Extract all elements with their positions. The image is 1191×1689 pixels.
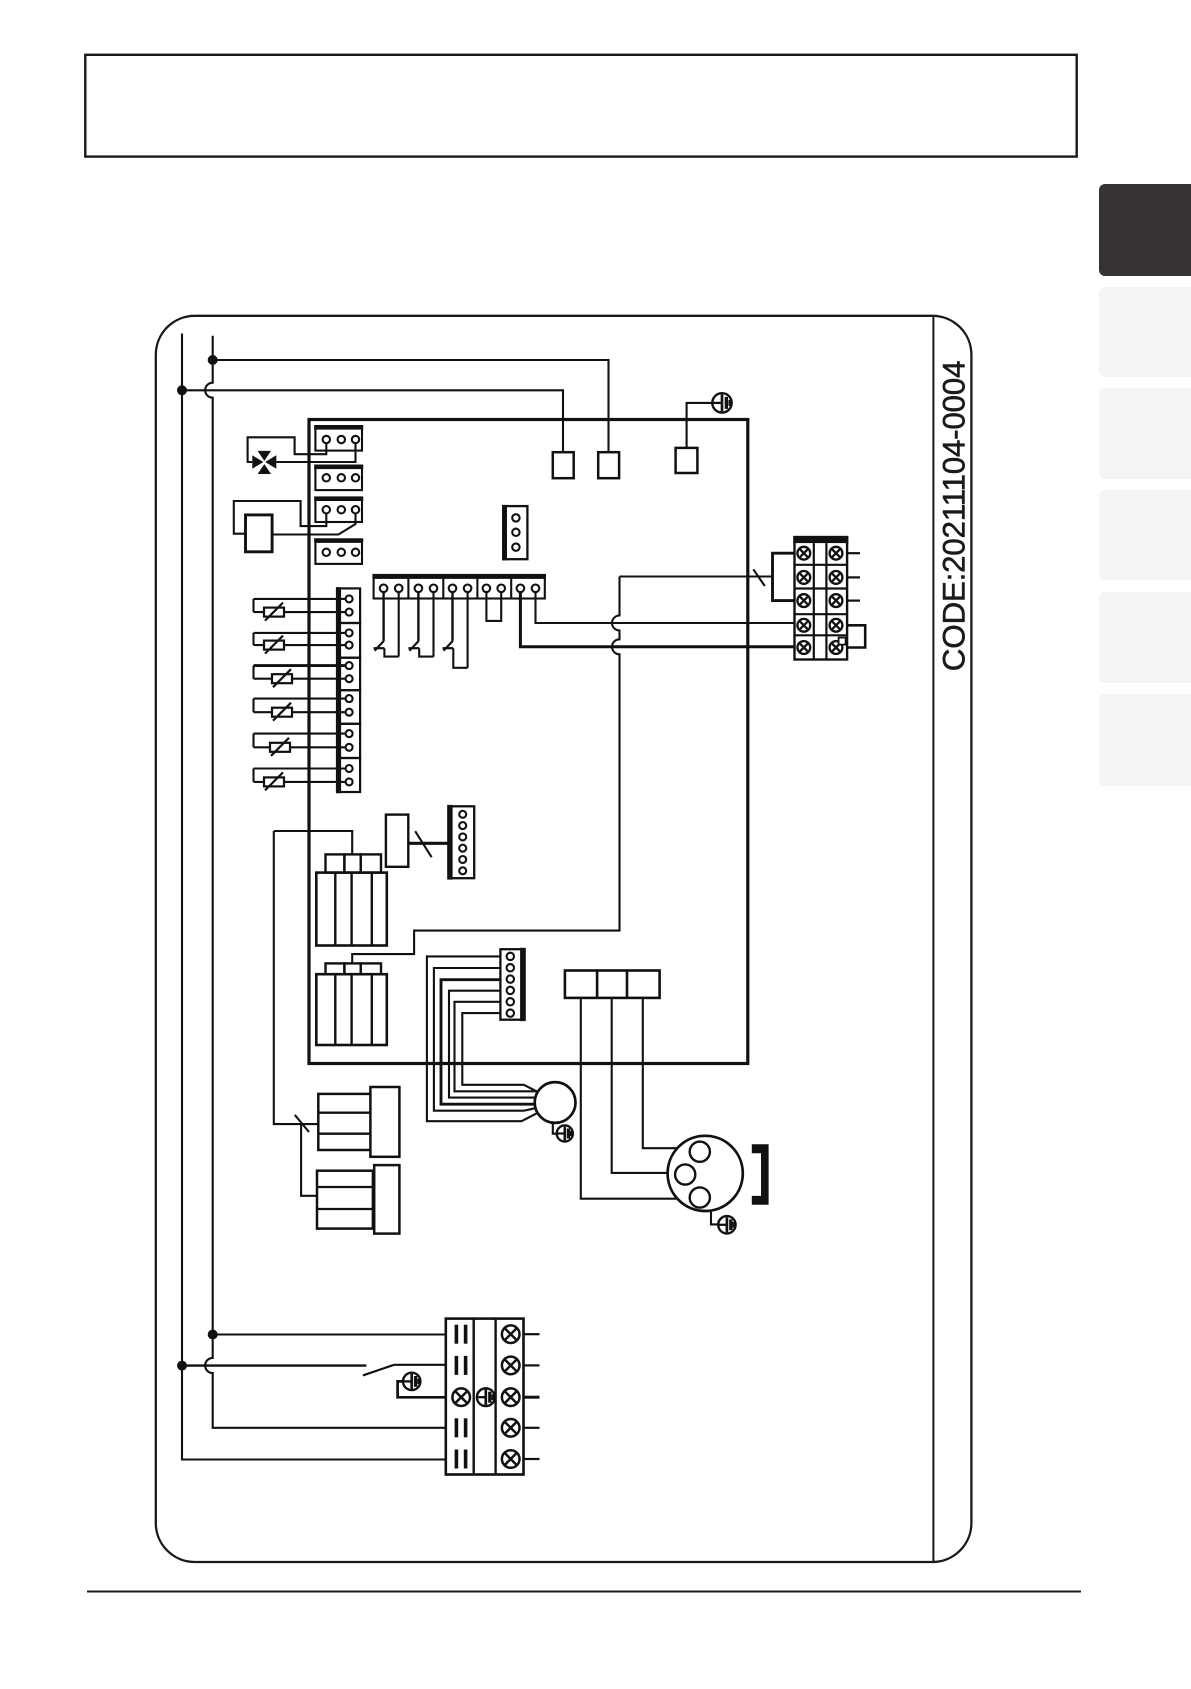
earth screw E2 (557, 1125, 573, 1141)
thermistor RT4 (254, 699, 346, 721)
thermistor RT5 (254, 734, 346, 756)
wire CN8 pin2 to motor (434, 968, 537, 1111)
junction dot L1 bottom (177, 1361, 187, 1371)
fan motor M1 (535, 1082, 576, 1123)
connector CN4 (314, 538, 363, 564)
heater H1 (318, 1087, 399, 1157)
side tab 2 (1099, 287, 1191, 377)
TB3 screw row4 (502, 1419, 520, 1437)
wire L1 to box S1 (182, 390, 563, 452)
switch slash TB2 (753, 569, 765, 586)
wire M1 to earth screw E2 (553, 1123, 557, 1134)
switch SW2 (408, 592, 433, 657)
side tab 5 (1099, 592, 1191, 683)
TB3 screw row5 (502, 1450, 520, 1468)
wire feed RB1 (274, 831, 352, 854)
wire K2 to compressor U (643, 998, 690, 1148)
TB2 screw row3 left (797, 594, 810, 607)
TB2 screw row5 left (797, 641, 810, 654)
slash C1 (415, 831, 431, 857)
wire branch heater2 (301, 1124, 317, 1196)
wire CN1 pin3 to valve (276, 443, 355, 462)
compressor terminal V (675, 1164, 695, 1184)
wire switched to TB2 bracket (620, 575, 773, 577)
connector CN1 (314, 425, 363, 451)
connector CN3 (314, 496, 363, 522)
wire CN8 pin5 to motor (455, 1002, 539, 1092)
diagram rounded border (156, 316, 972, 1562)
wire M2 to earth screw E3 (711, 1210, 718, 1224)
wire rail M1 with hops (352, 577, 619, 964)
header box (85, 55, 1076, 157)
wire CN8 pin3 to motor (441, 980, 535, 1104)
compressor terminal U (690, 1142, 710, 1162)
wire L2 to box S2 (213, 360, 609, 452)
wire L2 row1 into TB3 (213, 1333, 446, 1335)
thermistor RT3 (254, 666, 346, 688)
TB2 screw row4 left (797, 619, 810, 632)
wire CN3 pin1 loop (234, 501, 326, 534)
connector CN7 column (336, 587, 360, 793)
TB3 stub row4 (524, 1427, 540, 1429)
wire drop to heaters (274, 831, 319, 1124)
junction dot L1 top (177, 385, 187, 395)
inner column line (932, 316, 934, 1561)
wire rail L2 (205, 336, 446, 1428)
switch blade SW4 (363, 1365, 394, 1376)
TB2 jumper rows4-5 (847, 625, 865, 647)
TB2 notch (839, 638, 846, 645)
TB2 screw row2 left (797, 571, 810, 584)
compressor M2 (668, 1136, 743, 1211)
side tab 6 (1099, 694, 1191, 786)
wire CN1 pin1 to valve (248, 437, 327, 462)
TB2 right stub row2 (847, 576, 860, 578)
TB2 right stub row3 (847, 599, 860, 601)
TB3 stub row5 (524, 1458, 540, 1460)
TB2 screw row1 right (830, 547, 843, 560)
wire CN8 pin6 to motor (462, 1013, 538, 1092)
switch SW3 (443, 592, 468, 668)
earth screw E1 (712, 393, 731, 412)
switch SW1 (374, 592, 399, 657)
TB3 stub row2 (524, 1364, 540, 1366)
box S3 (676, 448, 698, 473)
TB2 right stub row1 (847, 552, 860, 554)
relay bank RB2 (316, 963, 387, 1045)
bracket TB2 rows1-3 (773, 553, 795, 600)
TB3 clamp marks row2 (455, 1356, 468, 1375)
TB3 clamp marks row5 (455, 1450, 468, 1469)
terminal block TB3 (446, 1319, 524, 1475)
jumper loop cell4 (486, 592, 501, 621)
heater H2 (317, 1165, 399, 1234)
junction dot L2 top (208, 355, 218, 365)
compressor bracket (752, 1144, 769, 1204)
box S2 (598, 452, 619, 478)
TB3 earth symbol (477, 1388, 495, 1406)
TB3 stub row3 (524, 1396, 540, 1399)
PCB board outline (309, 420, 748, 1064)
side tab 3 (1099, 388, 1191, 479)
wire CN8 pin1 to motor (427, 956, 537, 1121)
valve Y1 (4-way valve coil) (252, 451, 276, 474)
wire C1 to CN6 (408, 842, 448, 845)
thermistor RT2 (254, 633, 346, 654)
TB2 screw row4 right (830, 619, 843, 632)
relay bank RB1 (316, 854, 387, 945)
terminal strip TB1 (372, 574, 546, 599)
footer rule (87, 1591, 1081, 1593)
wire E4 to TB3 earth (398, 1381, 446, 1397)
connector CN2 (314, 465, 363, 491)
earth screw E3 (718, 1216, 735, 1233)
compressor terminal W (690, 1187, 710, 1207)
TB3 screw row2 (502, 1357, 520, 1375)
TB3 screw row1 (502, 1325, 520, 1343)
connector CN5 (502, 505, 527, 561)
wire blade to TB3 (394, 1364, 446, 1366)
terminal block TB2 (793, 536, 848, 660)
component K1 box (246, 515, 273, 552)
side tab dark (1099, 184, 1191, 276)
TB2 screw row3 right (830, 594, 843, 607)
svg-text:CODE:20211104-0004: CODE:20211104-0004 (936, 361, 972, 671)
relay box K2 (565, 971, 660, 998)
TB3 stub row1 (524, 1333, 540, 1335)
thermistor RT6 (254, 769, 346, 791)
wire K2 to compressor W (581, 998, 690, 1199)
TB3 clamp marks row4 (455, 1418, 468, 1437)
TB3 clamp marks row1 (455, 1325, 468, 1344)
earth screw E4 (403, 1373, 420, 1390)
connector CN8 (500, 948, 525, 1021)
wire A strip to TB2 row4 (536, 592, 795, 623)
wire L1 row2 with switch (182, 1364, 366, 1366)
switch slash heater (295, 1115, 309, 1132)
thermistor RT1 (254, 599, 346, 621)
TB2 screw row5 right (830, 641, 843, 654)
wire K2 to compressor V (612, 998, 676, 1173)
connector CN6 (447, 805, 474, 880)
wire rail L1 left (182, 334, 446, 1460)
component C1 box (386, 815, 408, 867)
wire CN8 pin4 to motor (449, 991, 536, 1098)
TB3 earth screw left (452, 1388, 470, 1406)
TB2 screw row1 left (797, 547, 810, 560)
wire B strip to TB2 row5 (520, 592, 794, 647)
box S1 (553, 452, 574, 478)
wire S3 to screw E1 (687, 403, 713, 448)
TB3 screw row3 (502, 1388, 520, 1406)
junction dot L2 bottom (208, 1330, 218, 1340)
side tab 4 (1099, 490, 1191, 580)
TB2 screw row2 right (830, 571, 843, 584)
wire CN3 pin3 (272, 513, 355, 534)
